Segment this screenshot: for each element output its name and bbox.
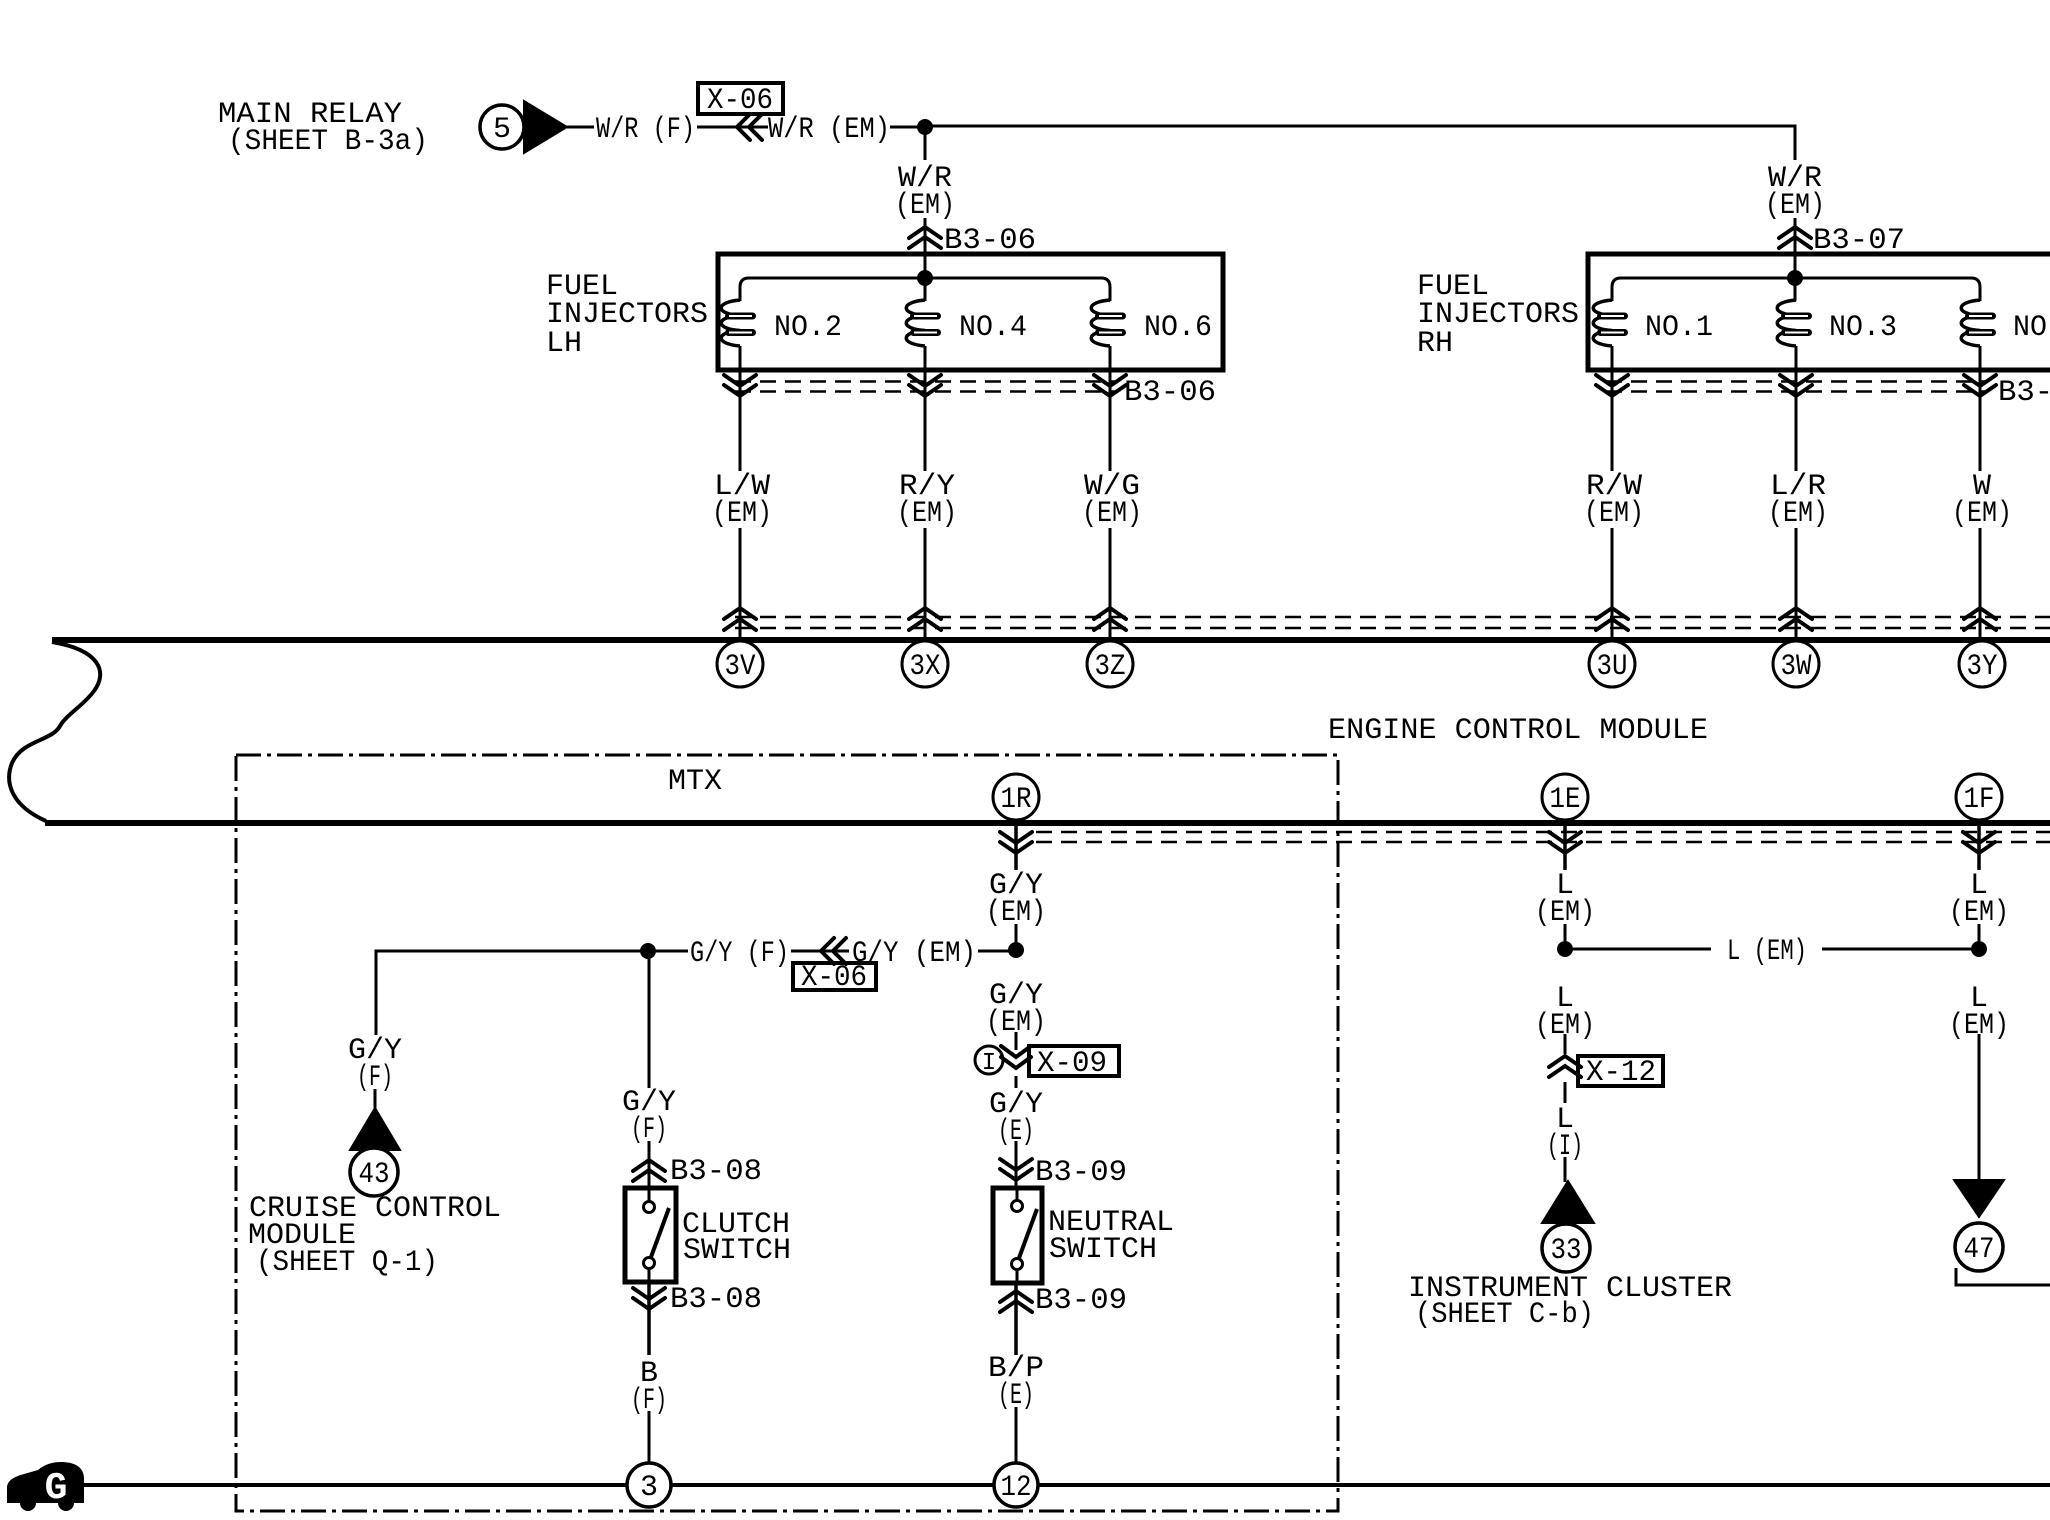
ECM pin 3Y — [1959, 641, 2005, 687]
svg-text:X-09: X-09 — [1037, 1047, 1107, 1081]
ECM connector chevron at W — [1964, 608, 1996, 630]
svg-text:NO.4: NO.4 — [959, 311, 1027, 345]
svg-text:(SHEET Q-1): (SHEET Q-1) — [256, 1246, 438, 1280]
svg-text:(EM): (EM) — [712, 497, 772, 531]
chevron under pin 1F — [1977, 826, 1981, 870]
svg-text:SWITCH: SWITCH — [683, 1234, 791, 1268]
svg-text:W/R (F): W/R (F) — [596, 113, 695, 147]
svg-text:(EM): (EM) — [897, 497, 957, 531]
ECM connector chevron at L/R — [1780, 608, 1812, 630]
injector NO.6 coil — [1091, 300, 1110, 346]
wire from 1R to junction — [1015, 924, 1018, 942]
ground pin 3 — [627, 1463, 671, 1507]
ECM connector chevron at R/W — [1596, 608, 1628, 630]
svg-text:NO.3: NO.3 — [1829, 311, 1897, 345]
injector NO.2 coil — [721, 300, 740, 346]
neutral switch contacts — [1012, 1201, 1023, 1212]
wire G/Y across to clutch branch — [656, 950, 688, 953]
fuel injectors RH box — [1588, 254, 2050, 370]
svg-text:B3-09: B3-09 — [1035, 1284, 1127, 1318]
svg-text:G/Y (F): G/Y (F) — [690, 937, 789, 971]
svg-text:LH: LH — [546, 327, 582, 361]
svg-text:X-12: X-12 — [1586, 1056, 1656, 1090]
svg-text:12: 12 — [1001, 1471, 1032, 1505]
wire to ground pin 3 — [648, 1411, 651, 1464]
chevron under pin 1E — [1563, 826, 1567, 870]
svg-text:33: 33 — [1551, 1234, 1582, 1268]
injector NO.5 coil — [1961, 300, 1980, 346]
svg-text:(EM): (EM) — [1765, 189, 1825, 223]
wire G/Y down to clutch switch — [648, 951, 651, 1088]
wire W/R (EM) down to LH injectors — [924, 133, 927, 160]
svg-text:MTX: MTX — [668, 765, 722, 799]
svg-text:3Z: 3Z — [1095, 650, 1126, 684]
neutral switch box — [993, 1188, 1042, 1283]
wire G/Y to cruise control module — [376, 951, 648, 1035]
svg-text:SWITCH: SWITCH — [1049, 1233, 1157, 1267]
svg-text:NO.2: NO.2 — [774, 311, 842, 345]
junction dot at main relay feed — [917, 119, 933, 135]
svg-text:47: 47 — [1964, 1233, 1995, 1267]
svg-text:43: 43 — [359, 1158, 390, 1192]
arrow to instrument cluster — [1542, 1181, 1594, 1223]
RH bus junction dot — [1787, 270, 1803, 286]
svg-text:3V: 3V — [725, 650, 756, 684]
svg-text:RH: RH — [1417, 327, 1453, 361]
B3-07 chevron at NO.3 — [1780, 375, 1812, 396]
connector X-06 top — [697, 126, 768, 129]
svg-text:1F: 1F — [1964, 783, 1995, 817]
wire L/W (EM) from injector to ECM — [739, 372, 742, 471]
RH injector bus wire — [1612, 278, 1980, 301]
svg-text:(EM): (EM) — [1768, 497, 1828, 531]
svg-text:B3-07: B3-07 — [1998, 376, 2050, 410]
svg-text:ENGINE CONTROL MODULE: ENGINE CONTROL MODULE — [1328, 714, 1708, 748]
MTX dash-dot box — [236, 755, 1338, 1511]
svg-text:B3-08: B3-08 — [670, 1155, 762, 1189]
svg-text:(EM): (EM) — [1952, 497, 2012, 531]
wire across top to RH injectors — [925, 126, 1795, 160]
svg-text:3W: 3W — [1781, 650, 1812, 684]
sheet reference circle 43 — [350, 1148, 398, 1196]
connector B3-06 top chevron — [909, 227, 941, 248]
wire L/R (EM) from injector to ECM — [1795, 372, 1798, 471]
svg-text:(SHEET B-3a): (SHEET B-3a) — [228, 125, 428, 159]
wire below X-09 — [1015, 1076, 1018, 1088]
svg-text:3: 3 — [640, 1471, 658, 1505]
connector B3-08 chevron top — [633, 1160, 665, 1181]
wire W/G (EM) from injector to ECM — [1109, 372, 1112, 471]
box corner under circle 47 — [1956, 1268, 2050, 1285]
svg-text:5: 5 — [493, 113, 511, 147]
ECM pin 3V — [717, 641, 763, 687]
svg-text:NO.1: NO.1 — [1645, 311, 1713, 345]
ECM pin 3Z — [1087, 641, 1133, 687]
wire down to sheet reference 47 — [1978, 1034, 1981, 1181]
feed wire into RH bus — [1794, 256, 1797, 301]
connector X-12 — [1549, 1056, 1581, 1077]
ECM pin 3U — [1589, 641, 1635, 687]
svg-text:1R: 1R — [1001, 783, 1032, 817]
ECM pin 1F — [1956, 774, 2002, 820]
injector NO.3 coil — [1777, 300, 1796, 346]
svg-text:L (EM): L (EM) — [1727, 935, 1807, 969]
ECM boundary line bottom — [45, 820, 2050, 826]
svg-text:G: G — [45, 1467, 68, 1510]
arrow from main relay — [524, 101, 567, 153]
ECM connector chevron at L/W — [724, 608, 756, 630]
B3-07 chevron at NO.1 — [1596, 375, 1628, 396]
connector B3-07 top chevron — [1779, 227, 1811, 248]
chevron under pin 1R — [1014, 826, 1018, 870]
wire R/W (EM) from injector to ECM — [1611, 372, 1614, 471]
svg-text:NO.5: NO.5 — [2013, 311, 2050, 345]
sheet reference circle 33 — [1542, 1224, 1590, 1272]
arrow to sheet reference 47 — [1954, 1180, 2004, 1217]
LH bus junction dot — [917, 270, 933, 286]
ECM connector chevron at W/G — [1094, 608, 1126, 630]
svg-text:(SHEET C-b): (SHEET C-b) — [1415, 1298, 1594, 1332]
wire to ground pin 12 — [1015, 1407, 1018, 1464]
injector NO.1 coil — [1593, 300, 1612, 346]
svg-text:(EM): (EM) — [1584, 497, 1644, 531]
junction dot 1E — [1557, 941, 1573, 957]
B3-06 chevron at NO.4 — [909, 375, 941, 396]
connector X-06 bottom — [791, 950, 849, 953]
wire to connector X-09 — [1015, 1032, 1018, 1050]
junction dot 1F — [1971, 941, 1987, 957]
wire into junction dot — [978, 950, 1010, 953]
fuel injectors LH box — [718, 254, 1223, 370]
svg-text:G/Y (EM): G/Y (EM) — [852, 937, 976, 971]
clutch switch blade — [651, 1208, 669, 1257]
connector B3-08 chevron bottom — [647, 1282, 651, 1355]
arrow to cruise control module — [350, 1108, 400, 1150]
connector B3-06 dashed boundary — [735, 380, 1115, 383]
junction dot clutch branch — [640, 943, 656, 959]
wire W (EM) from injector to ECM — [1979, 372, 1982, 471]
neutral switch blade — [1019, 1209, 1037, 1258]
ECM pin 1R — [993, 774, 1039, 820]
LH injector bus wire — [740, 278, 1110, 301]
svg-text:W/R (EM): W/R (EM) — [768, 113, 890, 147]
junction dot G/Y — [1008, 942, 1024, 958]
connector X-09 with body I — [975, 1046, 1003, 1074]
injector NO.4 coil — [906, 300, 925, 346]
sheet reference circle 5 — [480, 105, 524, 149]
svg-text:NO.6: NO.6 — [1144, 311, 1212, 345]
B3-07 chevron at NO.5 — [1964, 375, 1996, 396]
svg-text:1E: 1E — [1550, 783, 1581, 817]
svg-text:B3-09: B3-09 — [1035, 1156, 1127, 1190]
ECM pin 3X — [902, 641, 948, 687]
svg-text:3U: 3U — [1597, 650, 1628, 684]
wire R/Y (EM) from injector to ECM — [924, 372, 927, 471]
ECM connector chevron at R/Y — [909, 608, 941, 630]
svg-text:X-06: X-06 — [707, 84, 773, 118]
wire W/R (F) — [567, 126, 594, 129]
svg-text:I: I — [982, 1050, 996, 1077]
ground pin 12 — [994, 1463, 1038, 1507]
svg-text:B3-08: B3-08 — [670, 1283, 762, 1317]
connector B3-07 dashed boundary — [1606, 380, 1988, 383]
feed wire into LH bus — [924, 256, 927, 301]
B3-06 chevron at NO.2 — [724, 375, 756, 396]
clutch switch contacts — [644, 1202, 655, 1213]
ECM pin 1E — [1542, 774, 1588, 820]
svg-text:B3-06: B3-06 — [1124, 376, 1216, 410]
ground symbol G (car) — [7, 1462, 84, 1503]
connector B3-09 chevron top — [1000, 1159, 1032, 1180]
clutch switch internal wires — [648, 1188, 651, 1201]
ground line — [80, 1483, 2050, 1487]
wire L (EM) between 1E and 1F — [1573, 948, 1711, 951]
sheet reference circle 47 — [1955, 1223, 2003, 1271]
svg-text:3X: 3X — [910, 650, 941, 684]
svg-text:(EM): (EM) — [895, 189, 955, 223]
ECM connector dashed pair top — [735, 616, 2050, 619]
ECM continuation brace — [9, 642, 100, 821]
ECM connector dashed pair bottom — [1036, 831, 2050, 834]
connector B3-09 chevron bottom — [1014, 1283, 1018, 1355]
svg-text:(EM): (EM) — [1082, 497, 1142, 531]
neutral switch internal wires — [1016, 1188, 1019, 1201]
svg-text:3Y: 3Y — [1967, 650, 1998, 684]
wire to junction — [890, 126, 925, 129]
B3-06 chevron at NO.6 — [1094, 375, 1126, 396]
ECM boundary line top — [52, 637, 2050, 643]
clutch switch box — [625, 1188, 676, 1282]
ECM pin 3W — [1773, 641, 1819, 687]
